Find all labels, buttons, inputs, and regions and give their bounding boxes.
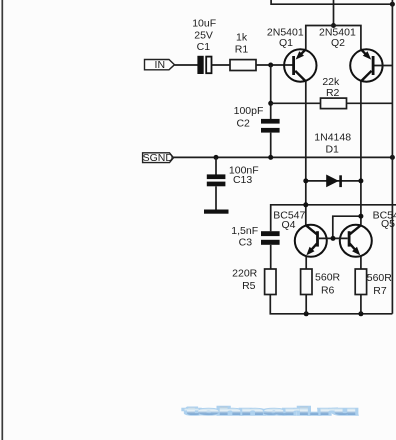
diode D1 [306,175,361,188]
wire C2 to SGND rail [270,133,272,158]
svg-text:25V: 25V [194,30,213,42]
svg-text:1,5nF: 1,5nF [231,225,258,237]
watermark tehnari.ru [186,406,357,418]
resistor R5 [265,269,276,295]
label R6 values [315,272,341,297]
svg-text:220R: 220R [232,268,258,280]
svg-text:Q5: Q5 [381,218,395,230]
svg-text:R1: R1 [235,43,249,55]
junction D1 cathode [358,178,363,183]
label C1 values [192,18,216,54]
label Q1 [267,26,304,49]
svg-text:R7: R7 [373,285,387,297]
junction emitter rail [331,23,336,28]
wire IN to C1 [175,64,198,66]
label Q2 [319,26,356,49]
svg-text:22k: 22k [322,76,340,88]
node dot R2 tap [268,101,273,106]
wire common base Q4-Q5 [319,237,348,239]
label D1 [314,132,351,156]
label C2 values [234,105,264,130]
wire SGND rail [174,156,393,158]
svg-text:C2: C2 [236,118,250,130]
svg-text:Q1: Q1 [279,37,293,49]
junction C13 on SGND [214,155,219,160]
wire bottom rail [270,295,392,314]
resistor R6 [301,269,312,295]
junction C2 on SGND [268,155,273,160]
svg-text:R5: R5 [242,280,256,292]
svg-text:IN: IN [155,59,166,71]
svg-text:tehnari.ru: tehnari.ru [186,406,357,418]
junction R6 bottom [304,311,309,316]
capacitor C2 [261,119,280,133]
junction D1 anode [303,178,308,183]
svg-text:100pF: 100pF [234,105,264,117]
resistor R1 [230,60,256,71]
wire Q2 collector down [360,82,362,225]
wire R1 to Q1 base [256,64,293,66]
label C3 values [231,225,258,248]
label Q4 [273,209,305,231]
label R2 values [322,76,340,99]
wire right rail [391,0,393,314]
wire node down to C2 [270,65,272,119]
svg-text:SGND: SGND [143,152,174,164]
wire C1 to R1 [212,64,231,66]
wire R2 to right rail [347,102,393,104]
label R1 values [235,32,249,56]
wire Q1 collector down [305,82,307,225]
wire C3 to R5 [270,245,272,269]
junction common base [331,236,336,241]
svg-text:D1: D1 [325,144,339,156]
node dot after R1 [268,63,273,68]
wire Q5 emitter to R7 [360,257,362,270]
transistor Q2 [350,49,382,81]
svg-text:560R: 560R [367,272,393,284]
svg-text:R2: R2 [326,87,340,99]
wire node to R2 [271,102,321,104]
wire R6 bottom stub [305,295,307,314]
node IN flag [145,59,175,71]
ground symbol [204,210,229,214]
junction SGND right rail [390,155,395,160]
capacitor C1 [197,56,211,74]
svg-text:Q2: Q2 [331,37,345,49]
wire top supply stub [271,0,392,4]
transistor Q4 [295,225,327,257]
junction Q5 collector [358,214,363,219]
wire C13 to ground [215,186,217,209]
svg-text:C3: C3 [239,236,253,248]
sheet border left edge [1,0,3,440]
wire SGND to C13 [215,157,217,174]
svg-text:10uF: 10uF [192,18,216,30]
svg-text:Q4: Q4 [281,219,295,231]
svg-text:C13: C13 [233,174,252,186]
label Q5 [373,210,396,231]
label R5 values [232,268,258,293]
transistor Q5 [340,225,372,257]
svg-text:1k: 1k [236,32,248,44]
svg-text:C1: C1 [197,41,211,53]
svg-text:560R: 560R [315,272,341,284]
junction top right rail [390,2,395,7]
capacitor C13 [207,174,226,186]
label R7 values [367,272,393,297]
node SGND flag [143,152,174,164]
wire emitter tail vertical [333,0,335,26]
junction Q4 collector [303,202,308,207]
transistor Q1 [284,49,316,81]
junction R7 bottom [358,311,363,316]
wire emitter rail [306,26,361,50]
svg-text:R6: R6 [321,285,335,297]
wire Q4 emitter to R6 [305,257,307,270]
wire Q2 base to right rail [375,65,393,67]
wire C3/Q4-collector bracket [271,205,396,231]
svg-text:1N4148: 1N4148 [314,132,351,144]
wire R7 bottom stub [360,295,362,314]
wire Q5 collector-base bracket [333,216,361,238]
label C13 values [229,165,259,187]
capacitor C3 [261,231,280,245]
resistor R2 [321,98,347,109]
resistor R7 [355,269,366,295]
